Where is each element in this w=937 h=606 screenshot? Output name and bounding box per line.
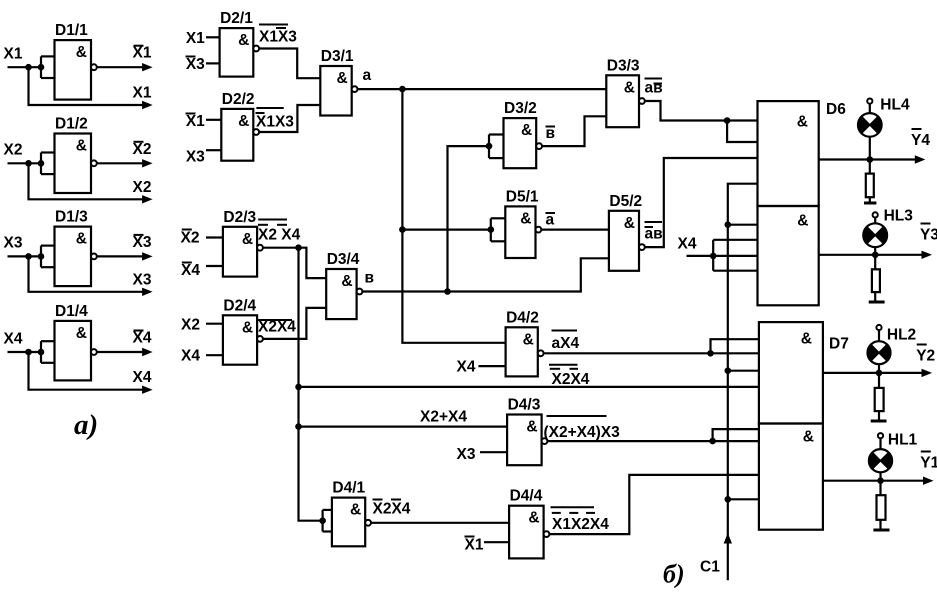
wire X4 feedthrough (29, 352, 144, 390)
junction lamp HL3 node (872, 252, 879, 259)
svg-text:X4: X4 (181, 348, 200, 365)
svg-text:X2X4: X2X4 (552, 371, 590, 388)
arrow output X3 (142, 288, 153, 296)
junction at D1/1 fork (38, 64, 45, 71)
junction at D1/3 fork (38, 253, 45, 260)
wire net not(notX2 notX4) to D7 (299, 386, 760, 388)
wire D2/2 out to D3/1 (259, 105, 320, 132)
svg-text:&: & (523, 331, 534, 348)
wire D3/2 out to D3/3 (542, 116, 606, 146)
svg-text:X2: X2 (4, 142, 23, 159)
terminal circle HL2 (876, 325, 881, 330)
lamp HL4 (858, 113, 882, 137)
wire HL3 stem (874, 218, 876, 224)
svg-text:D4/2: D4/2 (506, 309, 539, 326)
junction on X3 input (25, 253, 32, 260)
block D6 lower AND cell (758, 206, 819, 305)
junction X2+X4 to notX2notX4 line (295, 384, 302, 391)
wire net X2+X4 vertical (299, 248, 323, 521)
gate D2/2 (221, 109, 253, 161)
arrow output notX1 (142, 63, 153, 71)
wire D3/3 out to D6 (645, 101, 758, 121)
wire X4 input (8, 351, 42, 353)
wire X4 to D6 (687, 255, 758, 257)
svg-text:X2: X2 (181, 317, 200, 334)
svg-text:&: & (520, 210, 531, 227)
gate D3/3 (606, 75, 639, 127)
wire D3/3 out tie stub to D6 (727, 121, 757, 143)
svg-text:D6: D6 (826, 101, 846, 118)
gate D2/1 (220, 28, 254, 77)
svg-text:D2/1: D2/1 (220, 10, 253, 27)
inversion bubble D1/1 (91, 64, 97, 70)
wire D5/1 out to D5/2 (541, 229, 609, 231)
wire X1 input (8, 66, 42, 68)
svg-text:а: а (363, 67, 372, 84)
junction D5/1 fork (488, 226, 495, 233)
gate D1/1 (2I-NAND as inverter) (55, 40, 92, 100)
input tie fork D5/1 (490, 218, 492, 241)
svg-text:б): б) (663, 560, 685, 589)
arrow output notY4 (915, 155, 926, 163)
svg-text:Y3: Y3 (920, 227, 937, 244)
svg-text:X1X3: X1X3 (256, 114, 294, 131)
terminal circle HL1 (878, 433, 883, 438)
svg-text:C1: C1 (700, 559, 720, 576)
wire net a to D3/3 (358, 88, 607, 90)
junction at D1/2 fork (38, 160, 45, 167)
inversion bubble D5/2 (639, 244, 645, 250)
wire C1 stub to D7 lower (728, 498, 759, 500)
wire C1 clock bus (728, 184, 758, 581)
svg-text:X2X4: X2X4 (258, 319, 296, 336)
junction D2/3 output node (295, 244, 302, 251)
svg-text:D1/3: D1/3 (55, 209, 88, 226)
svg-text:HL4: HL4 (880, 97, 910, 114)
svg-text:X1: X1 (133, 85, 152, 102)
svg-text:D3/1: D3/1 (321, 48, 354, 65)
svg-text:&: & (238, 32, 249, 49)
inversion bubble D2/3 (257, 245, 263, 251)
svg-text:&: & (801, 331, 812, 348)
pin stub X4 to D4/2 (478, 365, 505, 367)
wire net a vertical to D4/2 (402, 89, 505, 343)
wire inverted output X4 (97, 351, 143, 353)
inversion bubble D1/2 (91, 160, 97, 166)
inversion bubble D3/3 (639, 98, 645, 104)
input tie fork D3/2 (488, 135, 490, 159)
terminal circle HL3 (873, 212, 878, 217)
inversion bubble D2/4 (257, 336, 263, 342)
pin stub notX1 to D4/4 (484, 541, 509, 543)
wire X3 input (8, 255, 42, 257)
svg-text:&: & (341, 273, 352, 290)
inversion bubble D2/1 (253, 46, 259, 52)
svg-text:а: а (546, 212, 555, 229)
junction C1 to D7 lower (725, 496, 732, 503)
gate D4/3 (507, 415, 541, 466)
junction D4/3 out fork (709, 438, 716, 445)
svg-text:X2 X4: X2 X4 (258, 227, 301, 244)
inversion bubble D3/4 (357, 289, 363, 295)
block D7 upper AND cell (759, 322, 823, 423)
svg-text:X3: X3 (133, 271, 152, 288)
junction at D1/4 fork (38, 349, 45, 356)
gate D4/2 (506, 327, 538, 376)
pin stub notX2 to D2/3 (206, 236, 223, 238)
junction net a (399, 86, 406, 93)
wire C1 stub to D6 lower (728, 224, 758, 226)
svg-text:аX4: аX4 (552, 335, 580, 352)
pin stub X2 to D2/4 (206, 323, 223, 325)
svg-text:X3: X3 (133, 234, 152, 251)
gate D1/3 (2I-NAND as inverter) (55, 227, 92, 287)
svg-text:&: & (624, 215, 635, 232)
gate D4/4 (509, 506, 543, 559)
svg-text:ав: ав (645, 226, 663, 243)
svg-text:&: & (797, 213, 808, 230)
svg-text:D2/4: D2/4 (223, 297, 256, 314)
gate D5/1 (505, 206, 535, 258)
svg-text:&: & (76, 44, 87, 61)
svg-text:X4: X4 (4, 330, 23, 347)
svg-text:D4/1: D4/1 (332, 480, 365, 497)
svg-text:X1: X1 (133, 45, 152, 62)
svg-text:в: в (365, 270, 375, 287)
resistor R1 (879, 481, 881, 496)
terminal circle HL4 (867, 99, 872, 104)
lamp HL2 (868, 341, 891, 364)
inversion bubble D1/3 (91, 254, 97, 260)
inversion bubble D3/2 (536, 143, 542, 149)
block D6 upper AND cell (758, 101, 819, 206)
svg-text:в: в (546, 125, 556, 142)
svg-text:X4: X4 (133, 369, 152, 386)
junction C1 to D7 upper (725, 367, 732, 374)
junction D4/2 out fork (707, 350, 714, 357)
wire HL1 stem (879, 438, 881, 449)
junction lamp HL1 node (877, 477, 884, 484)
gate D1/2 (2I-NAND as inverter) (55, 134, 92, 194)
svg-text:D1/1: D1/1 (55, 22, 88, 39)
svg-text:&: & (521, 122, 532, 139)
arrow output notX4 (142, 348, 153, 356)
svg-text:X4: X4 (678, 236, 697, 253)
gate D5/2 (609, 211, 639, 271)
junction lamp HL4 node (867, 156, 874, 163)
svg-text:HL3: HL3 (884, 208, 914, 225)
wire net v riser to D3/2 (448, 146, 490, 291)
arrow C1 direction (724, 533, 732, 544)
gate D3/2 (504, 118, 537, 168)
svg-text:X1: X1 (465, 537, 484, 554)
svg-text:D4/3: D4/3 (508, 397, 541, 414)
resistor R4 (869, 160, 871, 174)
arrow output X1 (142, 101, 153, 109)
wire output Y4 from block (819, 158, 917, 160)
pin stub notX1 to D2/2 (206, 119, 221, 121)
wire D5/2 out to D6 (645, 158, 758, 247)
svg-text:HL1: HL1 (888, 432, 918, 449)
svg-text:D5/2: D5/2 (609, 193, 642, 210)
junction X4 fork (710, 253, 717, 260)
svg-text:X2: X2 (133, 141, 152, 158)
wire D4/3 out tie stub to D7 (713, 429, 759, 441)
inversion bubble D4/4 (544, 531, 550, 537)
junction D4/1 fork (319, 517, 326, 524)
gate D1/4 (2I-NAND as inverter) (55, 321, 92, 381)
arrow output X4 (142, 386, 153, 394)
wire HL2 stem (878, 330, 880, 341)
wire net a to D5/1 fork (402, 229, 490, 231)
wire output Y1 from block (823, 480, 925, 482)
wire inverted output X1 (97, 66, 143, 68)
lamp HL3 (863, 223, 887, 247)
svg-text:&: & (242, 319, 253, 336)
svg-text:X2: X2 (181, 230, 200, 247)
svg-text:X1X3: X1X3 (259, 29, 297, 46)
resistor R3 (874, 255, 876, 269)
junction C1 to D6 lower (725, 221, 732, 228)
pin stub X3 to D4/3 (480, 451, 507, 453)
inversion bubble D4/2 (538, 350, 544, 356)
svg-text:D1/2: D1/2 (55, 116, 88, 133)
svg-text:X3: X3 (186, 56, 205, 73)
wire link D2/3 to D3/4 upper input (299, 248, 327, 278)
input tie fork D1/2 (40, 153, 42, 175)
junction D3/2 fork (486, 143, 493, 150)
svg-text:&: & (76, 325, 87, 342)
pin stub notX4 to D2/3 (206, 265, 223, 267)
inversion bubble D4/1 (365, 520, 371, 526)
svg-text:D2/3: D2/3 (223, 209, 256, 226)
ground tick HL3 (869, 301, 885, 304)
svg-text:Y4: Y4 (911, 132, 930, 149)
svg-text:X4: X4 (181, 262, 200, 279)
svg-text:&: & (528, 510, 539, 527)
gate D4/1 (332, 498, 365, 547)
wire output Y3 from block (819, 254, 923, 256)
wire C1 stub to D7 upper (728, 370, 759, 372)
wire net v to D5/2 (362, 258, 609, 291)
wire HL4 stem (869, 104, 871, 113)
svg-text:D3/2: D3/2 (504, 100, 537, 117)
input tie fork D1/1 (40, 56, 42, 78)
arrow output notY3 (922, 251, 933, 259)
wire D2/4 out to D3/4 lower input (263, 308, 326, 339)
svg-text:X3: X3 (457, 446, 476, 463)
svg-text:X1: X1 (186, 113, 205, 130)
junction on X2 input (25, 160, 32, 167)
svg-text:&: & (242, 231, 253, 248)
svg-text:D2/2: D2/2 (222, 91, 255, 108)
arrow output notX3 (142, 252, 153, 260)
svg-text:HL2: HL2 (887, 327, 916, 344)
pin stub X4 to D2/4 (206, 354, 223, 356)
svg-text:Y1: Y1 (920, 455, 937, 472)
junction on X1 input (25, 64, 32, 71)
svg-text:X3: X3 (4, 235, 23, 252)
svg-text:D3/4: D3/4 (327, 251, 360, 268)
wire X4 fork verticals (712, 240, 714, 271)
svg-text:D5/1: D5/1 (506, 188, 539, 205)
svg-text:D3/3: D3/3 (607, 57, 640, 74)
svg-text:а): а) (74, 409, 98, 441)
svg-text:X2+X4: X2+X4 (420, 409, 467, 426)
svg-text:X1X2X4: X1X2X4 (552, 516, 609, 533)
wire inverted output X2 (97, 162, 143, 164)
ground tick HL2 (871, 420, 887, 423)
wire X3 feedthrough (29, 256, 144, 291)
input tie fork D4/1 (322, 510, 324, 532)
junction D3/3 out fork (724, 117, 731, 124)
wire net X2+X4 to D4/3 (299, 426, 508, 428)
wire inverted output X3 (97, 255, 143, 257)
svg-text:&: & (76, 138, 87, 155)
inversion bubble D5/1 (536, 227, 542, 233)
inversion bubble D4/3 (542, 438, 548, 444)
gate D2/3 (223, 227, 257, 277)
ground tick HL4 (864, 202, 876, 205)
junction net v (444, 288, 451, 295)
arrow output notY2 (922, 369, 933, 377)
svg-text:X2X4: X2X4 (373, 501, 411, 518)
svg-text:X1: X1 (4, 46, 23, 63)
gate D2/4 (223, 315, 257, 364)
wire D4/2 out to D7 (544, 352, 759, 354)
wire X2 input (8, 162, 42, 164)
svg-text:&: & (350, 502, 361, 519)
input tie fork D1/3 (40, 246, 42, 268)
junction net a to D5/1 (399, 226, 406, 233)
resistor R2 (878, 373, 880, 388)
svg-text:D7: D7 (829, 336, 849, 353)
svg-text:X2: X2 (133, 179, 152, 196)
svg-text:(X2+X4)X3: (X2+X4)X3 (544, 424, 621, 441)
svg-text:X3: X3 (186, 149, 205, 166)
block D7 lower AND cell (759, 424, 823, 530)
svg-text:D1/4: D1/4 (55, 303, 88, 320)
wire D4/4 out to D7 (549, 475, 759, 534)
svg-text:&: & (797, 114, 808, 131)
svg-text:ав: ав (645, 80, 663, 97)
pin stub X1 to D2/1 (206, 36, 220, 38)
svg-text:X4: X4 (133, 330, 152, 347)
wire X1 feedthrough (29, 67, 144, 105)
svg-text:Y2: Y2 (916, 348, 935, 365)
wire X2 feedthrough (29, 163, 144, 199)
svg-text:&: & (76, 231, 87, 248)
pin stub notX3 to D2/1 (206, 62, 220, 64)
wire D4/3 out to D7 (547, 440, 759, 442)
svg-text:&: & (624, 79, 635, 96)
svg-text:&: & (238, 113, 249, 130)
junction lamp HL2 node (876, 370, 883, 377)
svg-text:&: & (526, 419, 537, 436)
inversion bubble D2/2 (253, 129, 259, 135)
svg-text:X1: X1 (186, 30, 205, 47)
wire D2/3 out (263, 247, 299, 249)
lamp HL1 (869, 449, 892, 472)
junction X2+X4 to D4/3 line (295, 423, 302, 430)
inversion bubble D1/4 (91, 349, 97, 355)
pin stub X3 to D2/2 (206, 149, 221, 151)
ground tick HL1 (873, 529, 889, 532)
input tie fork D1/4 (40, 341, 42, 363)
junction on X4 input (25, 349, 32, 356)
wire D4/2 out tie stub to D7 (711, 339, 759, 353)
arrow output notX2 (142, 159, 153, 167)
wire D2/1 out to D3/1 (259, 49, 320, 79)
svg-text:X4: X4 (457, 359, 476, 376)
svg-text:&: & (803, 429, 814, 446)
svg-text:D4/4: D4/4 (510, 488, 543, 505)
arrow output X2 (142, 195, 153, 203)
svg-text:&: & (336, 70, 347, 87)
inversion bubble D3/1 (352, 86, 358, 92)
gate D3/4 (326, 269, 356, 319)
gate D3/1 (320, 66, 351, 116)
wire D4/1 out to D4/4 (371, 522, 509, 524)
wire output Y2 from block (823, 372, 923, 374)
arrow output notY1 (923, 477, 934, 485)
